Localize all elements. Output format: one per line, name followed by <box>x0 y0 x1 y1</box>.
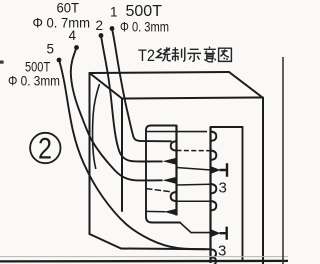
winding bundle edge on left face <box>93 84 100 169</box>
pin loop right rail y131 <box>211 132 217 142</box>
svg-text:Φ 0. 7mm: Φ 0. 7mm <box>33 16 91 31</box>
tap wire to lower arrow <box>180 223 211 233</box>
svg-text:500T: 500T <box>25 59 51 75</box>
pin 3 arrow lower <box>211 227 227 240</box>
pin loop right rail y150 <box>211 151 217 161</box>
svg-text:Φ 0. 3mm: Φ 0. 3mm <box>120 20 169 35</box>
pin loop left rail y192 <box>171 192 177 201</box>
bobbin box front left edge <box>121 99 123 212</box>
pin loop left rail y141 <box>171 141 177 150</box>
svg-text:3: 3 <box>219 180 227 197</box>
title char tu <box>219 48 232 61</box>
figure bottom border <box>0 260 288 263</box>
bobbin box front right edge <box>262 98 264 264</box>
title char zhi <box>172 47 185 61</box>
interrail wire y150 <box>177 150 211 152</box>
pin loop right rail y257 <box>211 257 217 264</box>
winding tap wire dashed y189 <box>146 189 172 192</box>
bobbin box top-left diagonal <box>90 73 123 99</box>
bobbin box bottom-left bevel <box>90 234 122 249</box>
wire lead 4 <box>71 48 163 181</box>
circled figure number 2 <box>30 133 60 166</box>
interrail wire y184 <box>177 183 211 186</box>
wire dot pin4 <box>74 45 79 50</box>
wire lead 2 <box>101 36 163 162</box>
pin rail left <box>175 126 177 216</box>
solder cone left rail bottom <box>164 209 177 216</box>
svg-text:Φ 0. 3mm: Φ 0. 3mm <box>8 74 60 89</box>
page border right <box>282 57 284 264</box>
bobbin box back top edge <box>90 72 230 73</box>
svg-text:500T: 500T <box>126 3 163 20</box>
pin loop right rail y201 <box>211 201 217 211</box>
svg-text:1: 1 <box>110 5 118 20</box>
winding wire top <box>146 131 207 133</box>
figure bottom faint rule <box>0 256 288 258</box>
solder cone left rail wire5 <box>163 177 177 184</box>
svg-text:2: 2 <box>96 18 104 33</box>
title char shi <box>188 49 202 61</box>
pin loop right rail y249 <box>211 249 217 258</box>
wire lead 5 <box>59 60 206 249</box>
pin rail right <box>209 127 211 263</box>
bobbin box front bottom edge <box>121 248 211 251</box>
title char yi <box>204 47 216 62</box>
title char rao <box>157 47 171 61</box>
solder cone left rail wire4 <box>163 158 177 165</box>
winding window left edge <box>146 126 180 223</box>
wire dot pin1 <box>110 26 115 31</box>
bobbin box top-right diagonal <box>229 72 263 98</box>
wire dot pin2 <box>99 33 104 38</box>
interrail wire y201 <box>177 200 211 202</box>
wire dot pin5 <box>57 58 62 63</box>
svg-text:4: 4 <box>69 28 77 43</box>
wire lead 1 <box>112 29 172 142</box>
winding end wire y211 <box>145 210 166 212</box>
bobbin box back left edge <box>89 73 91 234</box>
speck left edge <box>0 61 4 64</box>
svg-text:2: 2 <box>38 133 52 166</box>
interrail wire to pin3 arrow <box>177 168 212 171</box>
svg-text:5: 5 <box>47 42 55 57</box>
svg-text:T2: T2 <box>138 47 155 65</box>
bobbin box front top edge <box>122 98 263 99</box>
winding window right edge <box>211 127 243 261</box>
pin 3 arrow upper <box>211 163 227 177</box>
svg-text:60T: 60T <box>57 1 80 16</box>
pin loop right rail y184 <box>211 184 217 194</box>
